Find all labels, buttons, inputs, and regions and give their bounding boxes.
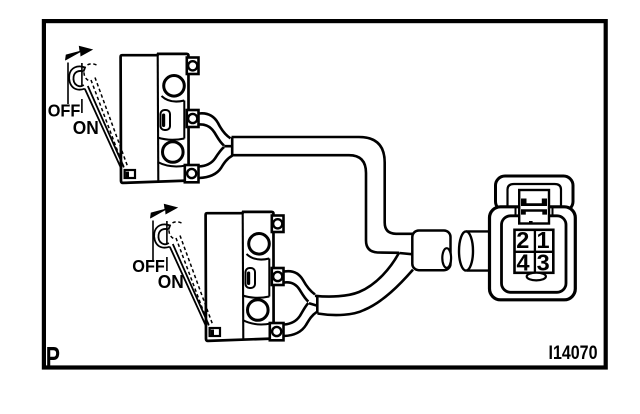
SW1 lever arm dashed (ON position) — [84, 64, 128, 170]
micro-switch SW2 — [132, 204, 283, 341]
SW1 mounting hole upper — [164, 76, 185, 97]
SW2 mounting hole lower — [248, 300, 269, 321]
SW1 terminal T1 — [187, 110, 199, 127]
cable sleeve (cut end) — [412, 231, 451, 271]
SW1 top tab — [187, 58, 199, 75]
connector latch — [519, 190, 549, 224]
connector pigtail stub — [459, 231, 493, 270]
SW1 mounting hole lower — [163, 142, 184, 163]
SW2 terminal T2 — [270, 323, 284, 340]
SW1 lever arm solid — [69, 66, 124, 168]
SW2 lever OFF position line — [152, 221, 154, 263]
upper harness bundle — [232, 137, 415, 234]
SW1 lever OFF position line — [67, 63, 69, 105]
connector pin block — [515, 230, 554, 273]
latch slot edges on body — [516, 208, 553, 217]
SW1 face divider line — [157, 55, 160, 182]
SW2 body — [206, 212, 274, 341]
svg-text:ON: ON — [73, 118, 99, 138]
connector J1 — [490, 176, 576, 300]
connector main body — [490, 207, 576, 300]
SW2 bottom notch — [210, 328, 220, 336]
SW1 actuation arrow — [65, 46, 93, 61]
wire from SW1 terminal T1 — [199, 113, 231, 138]
SW2 lever pivot line — [166, 221, 168, 271]
connector key oval — [527, 273, 546, 281]
wire junction SW1 — [224, 137, 232, 155]
SW2 terminal T1 — [272, 268, 284, 285]
SW1 bottom notch — [125, 170, 135, 178]
SW2 lever arm dashed (ON position) — [169, 222, 213, 328]
SW2 slot — [246, 268, 256, 288]
frame border — [44, 21, 606, 367]
SW2 face divider line — [242, 213, 245, 340]
connector inner shroud — [502, 216, 567, 292]
svg-text:ON: ON — [158, 272, 184, 292]
lower harness bundle — [315, 253, 399, 297]
SW2 top tab — [272, 216, 284, 233]
wire from SW2 terminal T1 — [284, 271, 315, 294]
SW1 terminal T2 — [185, 165, 199, 182]
svg-text:3: 3 — [537, 249, 550, 275]
SW2 lever arm solid — [154, 224, 209, 326]
wire from SW2 terminal T2 — [284, 312, 317, 336]
harness junction at sleeve — [399, 253, 413, 254]
wire junction SW2 — [309, 295, 317, 313]
svg-text:P: P — [46, 342, 60, 374]
connector top housing — [496, 176, 574, 211]
SW2 collar arcs — [243, 254, 272, 324]
SW1 lever pivot line — [81, 63, 83, 113]
svg-text:I14070: I14070 — [549, 342, 598, 364]
wire from SW1 terminal T2 — [199, 156, 233, 179]
svg-text:4: 4 — [516, 249, 529, 275]
SW1 collar arcs — [158, 96, 187, 166]
SW2 mounting hole upper — [249, 234, 270, 255]
SW1 body — [121, 54, 189, 183]
SW2 actuation arrow — [150, 204, 178, 219]
micro-switch SW1 — [48, 46, 199, 183]
SW1 slot — [161, 110, 171, 130]
